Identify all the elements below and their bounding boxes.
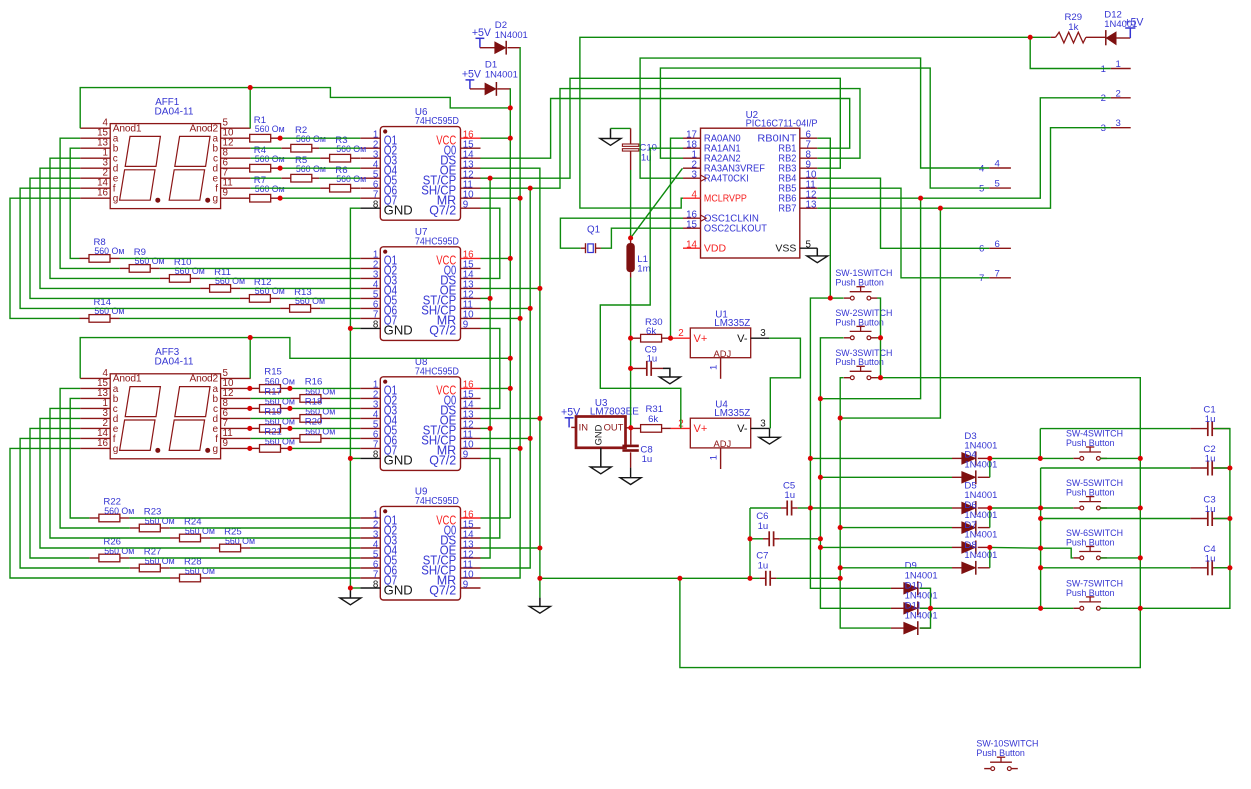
wire C2 row [1040,468,1042,508]
svg-text:9: 9 [463,200,468,211]
resistor R22 [99,514,120,522]
U2 pin 17 RA0AN0 [683,137,701,139]
wire RB4 to connector pin 6 [817,178,989,248]
capacitor C7 1u [760,577,766,579]
push button SW-6 [1073,557,1080,559]
junction at 1230,568 [1227,565,1232,570]
wire Q7/2 cascade U6 to U7 DS [481,208,500,278]
resistor R27 [139,564,160,572]
push button SW-5 [1073,507,1080,509]
AFF1 pin 3 segment d left [80,167,110,169]
U9 pin 16 VCC [461,517,481,519]
wire GND bus left of shift registers [350,208,360,588]
junction at 631,428 [628,425,633,430]
ground symbol at C9 [663,368,670,377]
resistor R9 [129,265,150,273]
push button SW-2 [844,337,851,339]
svg-text:1u: 1u [642,454,653,465]
svg-text:g: g [113,444,119,455]
U4 pin 2 V+ [671,427,690,429]
svg-text:VDD: VDD [704,243,727,255]
svg-text:GND: GND [384,454,413,468]
resistor R19 [260,425,281,433]
diode D3 1N4001 [962,453,975,464]
U4 pin 1 ADJ [720,448,722,469]
resistor R8 [89,255,110,263]
junction at 1041,518 [1038,516,1043,521]
svg-text:OUT: OUT [604,421,624,432]
svg-text:PIC16C711-04I/P: PIC16C711-04I/P [746,119,818,130]
junction at 1140,508 [1138,505,1143,510]
capacitor C9 1u [631,367,647,369]
svg-text:8: 8 [373,200,379,211]
wire RA4 to connector pin 4 [640,58,989,178]
U2 pin 14 VDD [683,247,701,249]
resistor R24 [180,534,201,542]
svg-text:5: 5 [806,240,812,251]
AFF1 pin 6 segment d right [221,167,251,169]
AFF3 pin 13 segment b left [80,397,110,399]
U8 pin 14 DS [461,407,481,409]
U6 pin 5 Q5 [360,177,380,179]
svg-text:+5V: +5V [1124,17,1144,29]
U9 pin 3 Q3 [360,537,380,539]
diode D12 1N4001 [1105,30,1107,45]
junction at 540,548 [537,545,542,550]
diode D11 1N4001 [904,623,917,634]
svg-text:+5V: +5V [472,27,492,39]
svg-text:IN: IN [579,421,588,432]
junction at 520,198 [518,196,523,201]
svg-text:1k: 1k [1068,22,1078,33]
wire RB5 to connector pin 7 [817,188,989,278]
svg-text:4: 4 [979,163,985,174]
U8 pin 5 Q5 [360,427,380,429]
U2 pin 8 RB2 [800,157,818,159]
wire RA3 diagonal to L1 node [631,168,683,238]
U8 pin 8 GND [360,457,380,459]
junction at 1230,468 [1227,465,1232,470]
AFF3 pin 7 segment e right [221,427,251,429]
junction at 880,338 [878,335,883,340]
wire MR bus from D2 [507,47,520,49]
svg-text:3: 3 [760,328,766,339]
junction at 250,408 [247,406,252,411]
U7 pin 9 Q7/2 [461,327,481,329]
junction at 1041,568 [1038,565,1043,570]
AFF1 digit segments [125,136,160,166]
junction at 820,539 [818,536,823,541]
resistor R11 [210,285,231,293]
ground symbol at U1/U4 V- [768,427,771,429]
junction at 930,608 [928,606,933,611]
U2 pin 6 RB0INT [800,137,818,139]
wire RA0 to R30 / U1 V+ [671,138,684,338]
resistor R21 [260,445,281,453]
junction at 820,547 [818,545,823,550]
wire Q7/2 cascade U7 to U8 DS [481,328,500,408]
svg-text:74HC595D: 74HC595D [415,366,459,377]
svg-text:7: 7 [979,273,984,284]
AFF3 pin 14 segment f left [80,437,110,439]
resistor R1 [250,134,271,142]
U6 pin 14 DS [461,157,481,159]
capacitor C5 1u [781,507,787,509]
U8 pin 9 Q7/2 [461,457,481,459]
diode D7 1N4001 [962,542,975,553]
svg-text:GND: GND [384,204,413,218]
U8 pin 10 MR [461,447,481,449]
U7 pin 14 DS [461,277,481,279]
junction at 350,328 [348,326,353,331]
junction at 490,428 [488,426,493,431]
U6 pin 4 Q4 [360,167,380,169]
U6 pin 13 OE [461,167,481,169]
U4 pin 3 V- [751,427,769,429]
resistor R16 [300,395,321,403]
svg-text:1u: 1u [1205,454,1216,465]
U8 pin 6 Q6 [360,437,380,439]
resistor R5 [291,174,312,182]
U9 pin 12 ST/CP [461,557,481,559]
wire SW-5 right [1100,507,1140,509]
+5V at U3 IN [565,417,574,419]
junction at 490,178 [488,176,493,181]
U2 pin 13 RB7 [800,207,818,209]
junction at 830,298 [828,296,833,301]
svg-text:1u: 1u [1205,553,1216,564]
U2 pin 18 RA1AN1 [683,147,701,149]
AFF1 pin 15 segment a left [80,137,110,139]
svg-text:1m: 1m [637,264,650,275]
U8 pin 3 Q3 [360,407,380,409]
resistor R14 [89,315,110,323]
resistor R3 [330,154,351,162]
svg-text:74HC595D: 74HC595D [415,496,459,507]
ground symbol at U9 GND [349,588,351,598]
svg-text:15: 15 [686,220,697,231]
U9 pin 9 Q7/2 [461,587,481,589]
svg-text:4: 4 [692,190,698,201]
svg-text:4: 4 [995,159,1001,170]
junction at 631,238 [628,235,633,240]
junction at 350,588 [348,585,353,590]
junction at 631,338 [628,336,633,341]
junction at 680,578 [677,576,682,581]
resistor R26 [99,554,120,562]
junction at 990,458 [987,456,992,461]
U2 pin 7 RB1 [800,147,818,149]
U6 pin 10 MR [461,197,481,199]
U7 pin 10 MR [461,317,481,319]
U8 pin 7 Q7 [360,447,380,449]
wire +5V MCLR net with R29 [580,37,1030,208]
junction at 1041,548 [1038,546,1043,551]
junction at 670,338 [668,336,673,341]
resistor R7 [250,194,271,202]
junction at 530,308 [528,306,533,311]
svg-text:560 Ом: 560 Ом [104,506,134,517]
AFF3 pin 15 segment a left [80,387,110,389]
U9 pin 13 OE [461,547,481,549]
wire SW-2 left bus [820,338,891,609]
svg-text:14: 14 [686,240,697,251]
junction at 490,298 [488,296,493,301]
AFF3 pin Anod2 [221,377,251,379]
U2 pin 10 RB4 [800,177,818,179]
svg-text:560 Ом: 560 Ом [255,184,285,195]
resistor R15 [260,385,281,393]
junction at 250,448 [247,446,252,451]
U6 pin 1 Q1 [360,137,380,139]
wire VCC bus from D1 [509,88,511,518]
svg-text:Q7/2: Q7/2 [429,204,456,218]
shift register U8 74HC595D box [380,377,460,471]
svg-text:9: 9 [223,438,228,449]
diode D9 1N4001 [904,583,917,594]
wire AFF3 resistor rows R15-R21 to U8 inputs [251,387,260,389]
svg-text:V-: V- [737,333,748,345]
svg-text:9: 9 [463,320,468,331]
svg-text:1u: 1u [647,353,658,364]
svg-text:16: 16 [97,188,108,199]
junction at 250,338 [248,335,253,340]
svg-text:6k: 6k [646,326,656,337]
svg-text:1: 1 [709,455,720,460]
wire C5 C6 C7 left bus [749,508,751,578]
junction at 990,508 [987,505,992,510]
shift register U7 74HC595D box [380,247,460,341]
junction at 1140,558 [1138,555,1143,560]
U6 pin 3 Q3 [360,157,380,159]
wire AFF1 resistor rows R1-R7 to U6 inputs [280,137,360,139]
svg-text:LM7803EE: LM7803EE [590,407,639,418]
svg-text:Push Button: Push Button [1066,588,1115,599]
junction at 520,318 [518,316,523,321]
svg-text:1u: 1u [758,561,769,572]
AFF1 pin Anod1 [80,127,110,129]
U7 pin 16 VCC [461,257,481,259]
junction at 510,258 [508,256,513,261]
wire C5 to D5 row [798,507,811,509]
capacitor C4 1u [1190,567,1208,569]
svg-text:ADJ: ADJ [714,438,732,449]
svg-text:V-: V- [737,423,748,435]
junction at 250,428 [247,426,252,431]
AFF3 pin 2 segment e left [80,427,110,429]
junction at 290,408 [287,406,292,411]
U9 pin 5 Q5 [360,557,380,559]
resistor R10 [169,275,190,283]
svg-text:g: g [113,194,119,205]
U2 pin 3 RA4T0CKI [683,177,701,179]
svg-text:g: g [212,444,218,455]
U8 pin 12 ST/CP [461,427,481,429]
push button SW-10 [984,768,991,770]
AFF3 pin 1 segment c left [80,407,110,409]
junction at 921,198 [918,196,923,201]
connector pin 7 [989,277,1011,279]
junction at 1041,608 [1038,606,1043,611]
U9 pin 15 Q0 [461,527,481,529]
U6 pin 7 Q7 [360,197,380,199]
svg-text:GND: GND [384,324,413,338]
U1 pin 2 V+ [671,337,690,339]
svg-text:Q7/2: Q7/2 [429,454,456,468]
connector pin 4 [989,167,1011,169]
temperature sensor U4 LM335Z box [690,418,750,448]
AFF1 pin 7 segment e right [221,177,251,179]
U8 pin 16 VCC [461,387,481,389]
junction at 880,378 [878,375,883,380]
wire to connector pin 1 [1030,37,1111,68]
AFF3 pin 11 segment f right [221,437,251,439]
wire SW-6 right [1100,557,1140,559]
U7 pin 5 Q5 [360,297,380,299]
AFF1 pin 11 segment f right [221,187,251,189]
junction at 990,547 [987,545,992,550]
AFF1 decimal points [155,198,160,203]
diode D1 1N4001 [466,79,475,81]
resistor R23 [139,524,160,532]
wire AFF1 segment jogs to resistor rows R8-R14 [60,138,120,268]
U6 pin 6 Q6 [360,187,380,189]
AFF3 pin 16 segment g left [80,447,110,449]
resistor R17 [260,405,281,413]
U1 pin 3 V- [751,337,769,339]
wire OSC2 to crystal [601,228,683,248]
U9 pin 11 SH/CP [461,567,481,569]
U9 pin 8 GND [360,587,380,589]
svg-text:6k: 6k [648,414,658,425]
junction at 750,578 [747,576,752,581]
wire RA2 to connector pin 5 [660,68,989,188]
capacitor C10 1u [622,144,638,146]
junction at 290,428 [287,426,292,431]
resistor R13 [290,305,311,313]
connector pin 3 [1111,127,1131,129]
U2 pin 16 OSC1CLKIN [683,217,701,219]
U3 pin OUT [626,427,631,429]
diode D10 1N4001 [904,603,917,614]
svg-text:V+: V+ [694,333,708,345]
capacitor C8 1u [622,445,638,448]
wire U6 DS from RB1 [481,99,850,159]
connector pin 6 [989,247,1011,249]
junction at 280,138 [278,136,283,141]
wire AFF3 anode net [80,338,250,379]
AFF3 pin 12 segment b right [221,397,251,399]
U6 pin 2 Q2 [360,147,380,149]
resistor R12 [249,295,270,303]
svg-text:RA4T0CKI: RA4T0CKI [704,173,749,185]
resistor R29 1k zigzag [1051,36,1056,38]
svg-text:16: 16 [97,438,108,449]
svg-text:1N4001: 1N4001 [964,550,997,561]
junction at 540,418 [537,416,542,421]
AFF1 pin 2 segment e left [80,177,110,179]
svg-text:560 Ом: 560 Ом [94,246,124,257]
junction at 820,477 [818,475,823,480]
svg-text:Push Button: Push Button [835,278,884,289]
svg-text:GND: GND [384,583,413,597]
junction at 810,508 [808,505,813,510]
shift register U9 74HC595D box [380,506,460,600]
wire RB0 to SW-1 / diode column nets [817,138,830,298]
junction at 750,539 [747,536,752,541]
AFF1 pin 14 segment f left [80,187,110,189]
svg-text:560 Ом: 560 Ом [255,154,285,165]
U6 pin 15 Q0 [461,147,481,149]
svg-text:13: 13 [806,200,817,211]
svg-text:Push Button: Push Button [835,357,884,368]
svg-text:GND: GND [592,424,603,445]
svg-text:74HC595D: 74HC595D [415,116,459,127]
push button SW-4 [1073,457,1080,459]
wire AFF1 anode net top [80,88,250,129]
wire SW-4 right [1100,457,1140,459]
junction at 290,388 [287,386,292,391]
wire R8-R14 rows to U7 inputs [120,257,361,259]
junction at 530,438 [528,436,533,441]
svg-text:3: 3 [692,170,698,181]
wire OE bus [481,168,540,597]
svg-text:DA04-11: DA04-11 [155,357,194,368]
svg-text:9: 9 [223,188,228,199]
wire C3 row [1040,508,1042,608]
AFF3 pin 6 segment d right [221,417,251,419]
wire SW-3 right to C1 and switch common column [680,378,1140,668]
svg-text:Q1: Q1 [587,224,600,235]
junction at 520,448 [518,446,523,451]
wire RA1 to R31 / U4 V+ [600,148,683,428]
junction at 820,399 [818,396,823,401]
svg-text:Push Button: Push Button [1066,488,1115,499]
wire C4 row [1041,567,1191,569]
svg-text:5: 5 [979,183,984,194]
capacitor C6 1u [763,538,769,540]
junction at 1030,37 [1028,35,1033,40]
wire U6 SH/CP from RB2 [481,89,861,189]
U9 pin 4 Q4 [360,547,380,549]
svg-text:VSS: VSS [775,243,796,255]
svg-text:1: 1 [709,365,720,370]
U7 pin 3 Q3 [360,277,380,279]
ground symbol at VSS [816,248,818,256]
diode D8 1N4001 [962,562,975,573]
ground symbol top left near C10 [610,128,612,138]
junction at 1230,518 [1227,516,1232,521]
wire SW-6 jog [1041,548,1074,558]
AFF3 pin 8 segment c right [221,407,251,409]
AFF1 pin 1 segment c left [80,157,110,159]
U7 pin 6 Q6 [360,307,380,309]
U7 pin 4 Q4 [360,287,380,289]
junction at 510,388 [508,386,513,391]
U6 pin 9 Q7/2 [461,207,481,209]
svg-text:5: 5 [995,179,1000,190]
U9 pin 7 Q7 [360,577,380,579]
junction at 1140,608 [1138,606,1143,611]
display AFF3 DA04-11 box [110,374,220,459]
svg-text:9: 9 [463,579,468,590]
junction at 631,368 [628,366,633,371]
wire R22-R28 rows to U9 inputs [129,517,360,519]
wire L1 R30 C9 U3-OUT net [630,151,632,170]
ground symbol at OE bus [539,598,541,607]
U9 pin 14 DS [461,537,481,539]
AFF1 pin 13 segment b left [80,147,110,149]
